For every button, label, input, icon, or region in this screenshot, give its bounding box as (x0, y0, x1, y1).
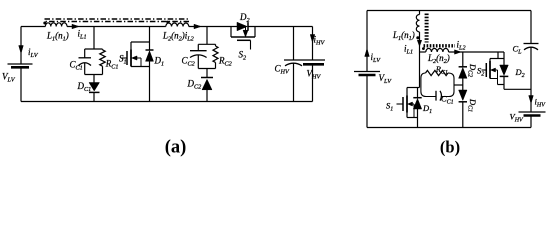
wire: S1 branch from top rail (a) (149, 27, 151, 51)
wire: clamp2 bottom bar (a) (198, 69, 215, 78)
resistor RC1 (b) (421, 70, 454, 96)
coupled-inductor core line (a) (45, 19, 190, 22)
inductor L2(n2) (b) (420, 47, 505, 52)
current arrow iL1 (a) (72, 24, 79, 29)
battery VHV (a) (303, 63, 324, 66)
current arrow iL2 (a) (194, 24, 201, 29)
battery VHV (b) (519, 112, 546, 116)
current arrow iLV (a) (19, 46, 24, 54)
svg-text:(b): (b) (440, 138, 460, 157)
wire: LV branch left (a) (20, 27, 22, 102)
current arrow iLV (b) (365, 49, 370, 57)
wire: clamp1 bottom bar (a) (85, 75, 103, 83)
capacitor CC1 (a) (79, 49, 92, 75)
diode DC1 (a) (89, 83, 100, 102)
transistor S2 (b) (482, 52, 505, 85)
wire: bottom rail (b) (367, 127, 531, 129)
diode D1 (b) (413, 88, 421, 128)
diode DC2 (a) (201, 78, 213, 102)
transistor S1 (a) (122, 42, 150, 67)
resistor RC1 (a) (100, 49, 105, 75)
coupled-inductor core line vertical (b) (425, 14, 429, 43)
wire: LV branch left (b) (366, 11, 368, 128)
battery VLV (a) (8, 64, 33, 67)
wire: top rail (b) (367, 10, 531, 12)
current arrow iHV (a) (310, 35, 315, 43)
figure (a): converter with separate clamp branches (0, 0, 1, 1)
current arrow iHV (b) (529, 96, 534, 104)
wire: node M1 vertical (b) (419, 52, 421, 88)
battery VLV (b) (354, 72, 380, 76)
wire: HV branch right (a) (312, 27, 314, 102)
inductor L1(n1) (b) (416, 11, 419, 53)
coupled-inductor core line horizontal (b) (424, 44, 456, 47)
diode D2 (b) (500, 52, 531, 89)
capacitor CC1 (b) (436, 91, 442, 101)
resistor RC2 (a) (213, 44, 218, 68)
svg-text:(a): (a) (165, 138, 187, 158)
current arrow iL2 (b) (455, 50, 462, 54)
wire: clamp stub to diode branch (b) (454, 84, 463, 86)
capacitor CL (b) (524, 44, 539, 50)
current arrow iL1 (b) (417, 40, 421, 46)
diode D2 (a) (237, 22, 248, 31)
capacitor CC2 (a) (190, 44, 207, 68)
transistor S1 (b) (397, 88, 420, 118)
wire: top rail (a) (21, 26, 313, 28)
node: clamp2 junction wire (a) (198, 27, 215, 45)
capacitor CHV (a) (284, 27, 325, 102)
diode DC2 (b) (459, 52, 467, 90)
diode D1 (a) (146, 50, 154, 102)
wire: bottom rail (a) (21, 101, 313, 103)
wire: HV branch right (b) (530, 11, 532, 128)
inductor L1(n1) (a) (43, 22, 67, 27)
transistor S2 (a) (231, 27, 255, 50)
inductor L2(n2) (a) (166, 21, 189, 27)
diode DC1 (b) (459, 90, 467, 128)
node: clamp1 junction wire (a) (85, 27, 103, 50)
